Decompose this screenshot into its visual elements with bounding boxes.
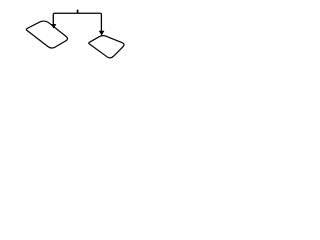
right parallelogram shape	[89, 36, 124, 58]
left parallelogram shape	[26, 21, 67, 48]
wire: T-shaped connector, horizontal run with two vertical branches	[53, 13, 101, 31]
arrowhead into right shape	[99, 31, 104, 35]
wire: connector stub entering from above at middle	[77, 10, 79, 14]
arrowhead into left shape	[51, 24, 55, 28]
